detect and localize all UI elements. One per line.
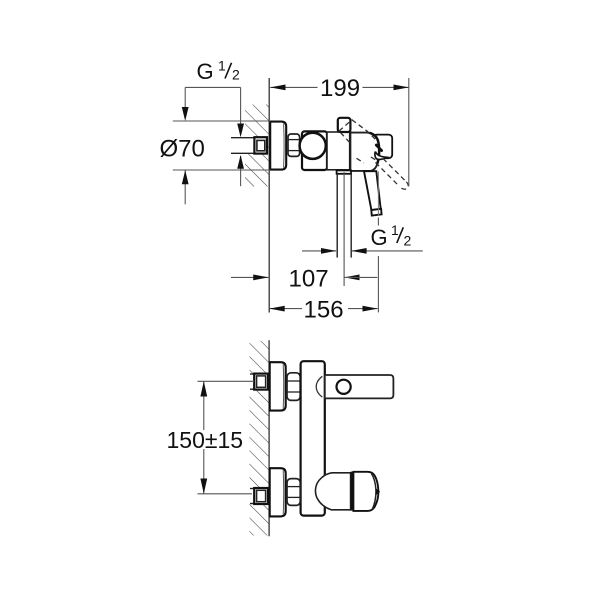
lever grip end cap xyxy=(373,135,392,159)
svg-text:G: G xyxy=(371,225,388,250)
outlet centerline xyxy=(343,172,345,286)
phantom lever dashes (raised position) xyxy=(339,120,408,189)
knob bold separator xyxy=(350,472,353,511)
top supply elbow stubs xyxy=(250,374,255,389)
top escutcheon (front view) xyxy=(270,362,286,410)
dimension 156 xyxy=(269,296,377,323)
diverter button xyxy=(338,118,351,132)
svg-text:2: 2 xyxy=(404,233,412,249)
svg-text:156: 156 xyxy=(304,296,344,323)
top supply elbow xyxy=(254,374,268,390)
spout hole circle xyxy=(337,380,351,394)
label G 1/2 (bottom) xyxy=(371,222,412,250)
lever tip extension line xyxy=(377,172,379,313)
arm junction arc xyxy=(316,376,322,397)
bottom union nut (front view) xyxy=(287,479,300,506)
dia 70 extension lines xyxy=(173,121,270,170)
199 right extension line xyxy=(408,78,410,186)
G 1/2 arrowheads at pipe xyxy=(182,107,244,169)
label G 1/2 (top) xyxy=(197,58,241,85)
dimension 107 xyxy=(231,265,377,292)
bottom escutcheon (front view) xyxy=(270,468,286,516)
knob pointer xyxy=(376,488,380,495)
hub bold profile curve xyxy=(370,133,380,165)
lever pivot pin xyxy=(376,145,381,151)
wall face line (top view) xyxy=(268,78,270,313)
body right bold edge xyxy=(349,132,352,171)
ball housing xyxy=(302,131,327,170)
handle hub xyxy=(350,133,379,171)
lever (solid, down position) xyxy=(364,171,382,215)
bottom supply elbow xyxy=(254,488,268,504)
ball joint xyxy=(300,133,326,159)
top union nut (front view) xyxy=(287,373,300,401)
svg-text:1: 1 xyxy=(391,222,399,238)
dimension 150 plus/minus 15 xyxy=(167,381,255,494)
svg-text:Ø70: Ø70 xyxy=(160,136,205,163)
dia 70 bottom arrow xyxy=(182,170,189,204)
outlet pipe lines xyxy=(337,174,351,258)
G 1/2 leader bracket xyxy=(185,87,240,186)
svg-text:1: 1 xyxy=(218,58,226,74)
svg-text:2: 2 xyxy=(232,67,240,83)
body cartridge section xyxy=(327,132,351,170)
escutcheon (top view) xyxy=(270,122,286,170)
supply pipe fitting in wall xyxy=(254,137,267,153)
bottom supply elbow stubs xyxy=(250,489,255,504)
dimension 199 xyxy=(270,75,409,102)
spout arm xyxy=(325,375,394,398)
supply pipe stub lines xyxy=(231,138,255,154)
wall hatching (top view) xyxy=(243,105,269,187)
G 1/2 outlet leader with arrows xyxy=(302,248,423,254)
knob end face arc xyxy=(371,473,376,509)
svg-text:G: G xyxy=(197,59,214,84)
lever beak xyxy=(375,152,387,160)
svg-text:150±15: 150±15 xyxy=(167,427,244,453)
wall hatching (front view) xyxy=(249,341,269,536)
svg-text:107: 107 xyxy=(289,265,329,292)
union nut (top view) xyxy=(288,134,300,156)
temperature knob xyxy=(353,472,378,511)
svg-text:199: 199 xyxy=(320,75,360,102)
outlet flange xyxy=(337,170,351,173)
cartridge dome piece xyxy=(315,473,350,510)
mixer body bar xyxy=(301,361,325,515)
wall face line (front view) xyxy=(268,340,270,536)
